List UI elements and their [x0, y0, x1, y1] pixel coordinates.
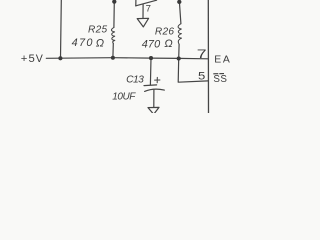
IC boundary (left edge of microcontroller): [207, 0, 209, 113]
wire: R26 bottom lead: [178, 44, 180, 58]
junction dot: C13 / rail: [149, 56, 153, 60]
ground (open triangle, C13): [148, 107, 159, 114]
svg-text:Ω: Ω: [96, 38, 104, 50]
value 470 ohm (R26): [142, 38, 173, 50]
junction dot: R26 / rail / SS drop: [177, 56, 181, 60]
svg-text:Ω: Ω: [164, 38, 172, 50]
wire: SS drop from rail to pin 5: [178, 59, 208, 83]
resistor R26: [178, 24, 181, 45]
value 470 ohm (R25): [72, 37, 104, 49]
wire: R25 top lead: [113, 2, 115, 28]
junction dot: R25 / rail: [111, 56, 115, 60]
wire: ground arrow stem: [142, 5, 144, 19]
svg-text:+5V: +5V: [21, 53, 44, 65]
wire: C13 lower stem: [153, 90, 155, 108]
switch lever (to off-page): [136, 0, 157, 6]
polarity + (C13): [155, 77, 160, 82]
svg-text:7: 7: [146, 4, 151, 15]
wire: R25 bottom lead: [112, 43, 114, 57]
svg-text:R26: R26: [155, 27, 175, 38]
svg-text:EA: EA: [214, 54, 231, 65]
resistor R25: [111, 27, 114, 43]
wire: R26 top lead: [179, 2, 181, 24]
svg-text:10UF: 10UF: [112, 92, 136, 103]
junction dot: R25 top (off-page): [112, 0, 116, 4]
wire: switch feed from top: [135, 0, 137, 6]
capacitor C13 curved plate: [145, 89, 165, 91]
svg-text:7: 7: [197, 48, 207, 62]
svg-text:5: 5: [198, 69, 205, 82]
pin name SS (active low, overline): [213, 74, 227, 86]
ground (open triangle, switch): [137, 18, 148, 27]
wire: +5V vertical feed: [60, 0, 63, 58]
wire: +5V rail: [46, 58, 208, 59]
svg-text:R25: R25: [88, 25, 108, 36]
junction dot: R26 top (off-page): [177, 0, 181, 4]
svg-text:SS: SS: [213, 74, 227, 85]
svg-text:C13: C13: [126, 75, 144, 86]
svg-text:470: 470: [142, 38, 161, 50]
capacitor C13 straight plate: [144, 84, 157, 87]
capacitor C13 top lead: [149, 58, 152, 85]
svg-text:470: 470: [72, 37, 94, 49]
junction dot: +5V feed / rail: [58, 56, 62, 60]
